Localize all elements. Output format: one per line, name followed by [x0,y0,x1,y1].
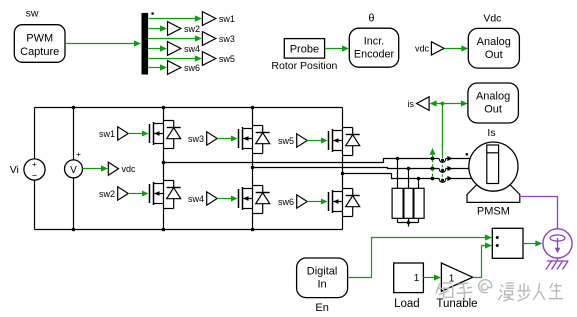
transistor Q2 channel bar [153,182,155,205]
signal label from is [417,97,430,111]
block Digital In [297,258,348,298]
transistor Q3 right bar [252,126,254,154]
transistor Q4 drain stub [243,188,253,190]
svg-text:Load: Load [394,298,420,310]
node bottom rail leg1 [162,228,166,232]
node snubber tap A [396,157,400,161]
rotational reference hatch 1 [546,261,552,270]
signal label from Q2 [118,187,129,200]
block product [492,228,523,258]
svg-text:sw4: sw4 [188,194,204,204]
motor magnet icon [487,145,499,184]
transistor Q2 right bar [163,181,165,209]
demux port dot [151,12,154,15]
wire phase A [164,159,440,163]
current probe dot phase B [441,169,444,172]
wire Q6 bottom loop [343,216,353,218]
wire demux out to sw6 [148,67,161,69]
wire leg mid to lower drain [163,163,165,181]
transistor Q1 drain stub [154,123,164,125]
svg-text:sw1: sw1 [219,14,235,24]
wire Vi top [34,108,36,159]
arrowhead gate Q5 [321,138,328,144]
diode Q6 anode lead [352,207,354,217]
arrowhead into is label [430,100,437,106]
svg-text:Out: Out [484,104,502,116]
wire Q2 bottom loop [164,208,174,210]
wire demux out to sw3 [148,38,196,40]
wire Q1 top loop [164,120,174,122]
signal label goto sw6 [168,61,181,75]
svg-text:Incr.: Incr. [364,36,384,48]
node top rail leg1 [162,106,166,110]
current probe loop phase B [439,169,445,173]
wire snubber tap B [408,169,410,189]
transistor Q3 drain stub [243,128,253,130]
transistor Q6 drain stub [333,191,343,193]
svg-text:Analog: Analog [477,36,511,48]
transistor Q3 source stub [243,148,253,150]
svg-text:PWM: PWM [26,33,53,45]
motor pedestal [467,184,520,202]
transistor Q5 right bar [342,128,344,156]
voltmeter V circle [65,160,83,178]
svg-text:Digital: Digital [307,266,338,278]
wire gate Q3 [217,138,233,140]
wire Probe to Encoder [325,48,344,50]
svg-text:vdc: vdc [122,164,137,174]
arrowhead into Analog Out Vdc [461,45,468,51]
svg-text:sw5: sw5 [278,136,294,146]
wire vdc to Analog Out [444,48,463,50]
node phase A leg1 [162,161,166,165]
wire snubber tap C [418,179,420,189]
arrowhead into Tunable [434,274,441,280]
node bottom rail voltmeter [72,228,76,232]
node probe dash phase C [431,177,435,181]
wire demux out to sw2 [148,28,161,30]
wire leg mid to lower drain [252,168,254,186]
current probe loop phase A [439,159,445,163]
wire V to vdc label [83,168,104,170]
node snubber tap B [407,167,411,171]
arrowhead into sw2 goto [160,25,167,31]
wire leg upper source to mid [252,154,254,168]
wire demux out to sw1 [148,18,196,20]
block Incr. Encoder [349,28,398,67]
signal label goto sw5 [202,52,215,66]
rotational reference hatch 2 [552,261,558,270]
svg-text:sw6: sw6 [184,63,200,73]
arrowhead into sw6 goto [160,64,167,70]
signal label vdc out [108,162,118,175]
transistor Q1 gate bar [149,124,151,143]
current probe dot phase C [441,179,444,182]
diode Q5 cathode lead [352,128,354,135]
signal label goto sw2 [168,22,181,36]
signal label goto sw3 [202,32,215,46]
wire leg drain to top rail [342,108,344,128]
arrowhead into sw3 goto [195,35,202,41]
wire Q6 top loop [343,188,353,190]
wire leg mid to lower drain [342,174,344,189]
transistor Q2 body arrow [154,191,159,196]
wire voltmeter top [73,108,75,160]
wire PWM Capture to demux [65,43,136,45]
wire Q2 top loop [164,180,174,182]
svg-text:+: + [32,159,37,169]
wire Load to Tunable [423,277,437,279]
arrowhead into vdc label [101,165,108,171]
arrowhead into sw4 goto [160,45,167,51]
wire leg upper source to mid [342,156,344,174]
arrowhead into sw5 goto [195,55,202,61]
diode Q1 anode lead [173,139,175,149]
wire snubber tap A [397,159,399,189]
motor magnet divider [487,152,499,154]
svg-text:Capture: Capture [20,46,59,58]
wire Q3 bottom loop [253,153,263,155]
transistor Q4 body stub [243,198,253,200]
svg-text:sw4: sw4 [184,44,200,54]
wire leg lower source to bottom rail [342,217,344,230]
rotational reference bar [547,260,569,262]
svg-text:sw2: sw2 [184,24,200,34]
wire Vi bottom [34,180,36,229]
signal label goto sw1 [202,12,215,26]
transistor Q6 source stub [333,211,343,213]
wire phase C [343,174,440,179]
wire leg drain to top rail [163,108,165,121]
node phase B leg2 [251,166,255,170]
node bottom rail leg2 [251,228,255,232]
block Probe [284,39,324,59]
svg-text:sw3: sw3 [219,34,235,44]
node top rail voltmeter [72,106,76,110]
svg-text:Rotor Position: Rotor Position [271,60,337,72]
svg-text:Out: Out [485,49,503,61]
signal label goto sw4 [168,42,181,56]
wire phase B after probe [446,168,469,170]
wire demux out to sw4 [148,48,161,50]
transistor Q3 channel bar [242,127,244,150]
svg-text:sw5: sw5 [219,54,235,64]
arrowhead phase A into motor [447,156,452,161]
wire leg lower source to bottom rail [163,209,165,230]
signal label from Q6 [297,195,308,208]
diode Q2 anode lead [173,199,175,209]
diode Q4 triangle [256,193,270,204]
transistor Q5 body stub [333,140,343,142]
wire snubber bottom B [408,218,410,222]
svg-text:1: 1 [414,273,420,284]
arrowhead phase B into motor [447,166,452,171]
arrowhead into Encoder [342,45,349,51]
svg-text:En: En [315,302,328,314]
svg-text:Is: Is [487,127,495,139]
block Analog Out Is [468,83,519,123]
transistor Q4 channel bar [242,187,244,210]
svg-text:vdc: vdc [415,44,430,54]
svg-text:Encoder: Encoder [354,49,395,61]
wire phase C after probe [446,178,472,180]
wire snubber star stub [408,223,410,227]
wire gate Q6 [307,201,323,203]
wire phase A after probe [446,158,470,160]
block Load [394,263,424,293]
diode Q3 cathode bar [256,132,270,134]
arrowhead phase C into motor [447,176,452,181]
svg-text:is: is [408,99,415,109]
diode Q2 cathode bar [167,187,181,189]
snubber RC outline [392,188,424,218]
wire bottom dc rail [35,229,343,231]
torque source arrow shaft [557,238,559,250]
probe dashed line [432,155,434,179]
transistor Q5 body arrow [333,138,338,143]
transistor Q1 channel bar [153,122,155,145]
diode Q1 cathode lead [173,121,175,128]
wire leg upper source to mid [163,149,165,163]
svg-text:Vi: Vi [10,164,19,176]
demux D1 [142,13,149,75]
transistor Q2 gate bar [149,184,151,203]
svg-text:In: In [318,279,327,291]
wire phase B [253,168,440,169]
wire gate Q4 [217,198,233,200]
node snubber tap C [417,177,421,181]
wire is measurement dashed [441,156,443,179]
svg-text:V: V [70,165,77,176]
diode Q4 cathode lead [262,186,264,193]
transistor Q4 right bar [252,186,254,214]
torque source arrowhead [555,248,560,254]
transistor Q3 body stub [243,138,253,140]
diode Q2 triangle [167,188,181,199]
arrowhead gate Q2 [142,191,149,197]
transistor Q6 channel bar [332,190,334,213]
wire gate Q5 [307,140,323,142]
transistor Q1 source stub [154,143,164,145]
svg-text:+: + [76,149,81,159]
signal label from Q4 [207,192,218,205]
diode Q3 cathode lead [262,126,264,133]
torque source ellipse [550,235,565,241]
transistor Q1 body arrow [154,131,159,136]
diode Q4 cathode bar [256,192,270,194]
svg-text:sw1: sw1 [99,129,115,139]
transistor Q5 source stub [333,150,343,152]
diode Q5 triangle [346,135,360,146]
node probe dash phase B [431,167,435,171]
gain Tunable triangle [441,263,472,291]
svg-text:sw2: sw2 [99,189,115,199]
wire demux out to sw5 [148,58,196,60]
wire gate Q1 [128,133,144,135]
svg-text:Analog: Analog [476,91,510,103]
transistor Q6 body stub [333,201,343,203]
transistor Q5 gate bar [328,131,330,150]
svg-text:Vdc: Vdc [483,13,501,25]
rotational reference hatch 3 [557,261,563,270]
node probe dash phase A [431,157,435,161]
signal label from Q1 [118,127,129,140]
diode Q1 cathode bar [167,127,181,129]
arrowhead gate Q1 [142,131,149,137]
arrowhead into demux [134,40,141,46]
node snubber star [407,221,411,225]
signal label from Q3 [207,132,218,145]
svg-text:sw: sw [26,8,39,20]
arrowhead gate Q6 [321,199,328,205]
transistor Q1 body stub [154,133,164,135]
wire Q5 top loop [343,127,353,129]
diode Q5 cathode bar [346,134,360,136]
transistor Q4 source stub [243,208,253,210]
arrowhead En into product [485,234,492,240]
arrowhead Tunable into product [485,242,492,248]
transistor Q2 body stub [154,193,164,195]
transistor Q3 gate bar [238,129,240,148]
signal label from vdc [431,42,444,55]
transistor Q6 gate bar [328,192,330,211]
wire Q5 bottom loop [343,155,353,157]
transistor Q5 drain stub [333,130,343,132]
wire shaft vertical [557,197,559,229]
wire Tunable to product [473,246,488,278]
wire voltmeter bottom [73,178,75,230]
diode Q1 triangle [167,128,181,139]
snubber divider 2 [413,188,415,218]
wire Q3 top loop [253,125,263,127]
wire product to torque source [523,243,538,245]
diode Q4 anode lead [262,204,264,214]
node is junction [441,102,445,106]
transistor Q3 body arrow [243,136,248,141]
svg-text:−: − [32,170,37,180]
transistor Q4 gate bar [238,189,240,208]
diode Q3 anode lead [262,144,264,154]
transistor Q6 body arrow [333,199,338,204]
rotational reference hatch 4 [563,261,569,270]
wire snubber star [398,222,419,224]
transistor Q2 source stub [154,203,164,205]
transistor Q6 right bar [342,189,344,217]
signal label from Q5 [297,134,308,147]
rotational reference stub [557,258,559,261]
svg-text:θ: θ [368,13,374,25]
transistor Q2 drain stub [154,183,164,185]
source Vi circle [24,159,45,180]
diode Q6 cathode lead [352,189,354,196]
current probe dot phase A [441,159,444,162]
node phase C leg3 [341,172,345,176]
wire gate Q2 [128,193,144,195]
wire node to is label [434,103,442,105]
wire leg drain to top rail [252,108,254,126]
svg-text:sw3: sw3 [188,134,204,144]
block Analog Out Vdc [468,28,519,68]
diode Q6 triangle [346,196,360,207]
current probe loop phase C [439,179,445,183]
arrowhead into sw1 goto [195,15,202,21]
wire snubber bottom A [397,218,399,222]
motor circle [469,142,518,191]
transistor Q1 right bar [163,121,165,149]
wire Q1 bottom loop [164,148,174,150]
wire shaft horizontal [520,196,558,198]
wire node to Analog Out Is [442,103,463,105]
diode Q3 triangle [256,133,270,144]
snubber divider 1 [403,188,405,218]
block PWM Capture [14,25,65,63]
diode Q5 anode lead [352,146,354,156]
wire is measurement vertical [441,104,443,156]
arrowhead into Analog Out Is [461,100,468,106]
wire top dc rail [35,107,343,109]
wire En to product [348,238,488,278]
product input mark 1 [496,236,499,239]
wire Q4 bottom loop [253,213,263,215]
transistor Q4 body arrow [243,196,248,201]
wire snubber bottom C [418,218,420,222]
probe dashed arrowhead up [429,148,435,155]
diode Q6 cathode bar [346,195,360,197]
svg-text:Probe: Probe [290,44,319,56]
watermark text zhihu [436,280,563,302]
arrowhead gate Q3 [231,136,238,142]
node top rail leg2 [251,106,255,110]
arrowhead gate Q4 [231,196,238,202]
arrowhead into torque source [535,240,542,246]
motor port marker [466,153,469,156]
svg-text:sw6: sw6 [278,197,294,207]
svg-text:Tunable: Tunable [436,298,477,310]
wire leg lower source to bottom rail [252,214,254,230]
diode Q2 cathode lead [173,181,175,188]
svg-text:PMSM: PMSM [477,206,510,218]
product input mark 2 [496,244,499,247]
wire Q4 top loop [253,185,263,187]
torque source circle [543,229,572,258]
transistor Q5 channel bar [332,129,334,152]
